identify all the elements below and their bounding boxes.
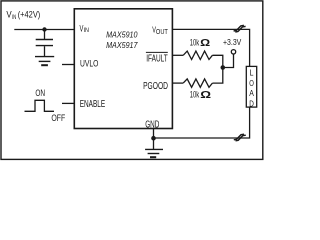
svg-text:+3.3V: +3.3V — [223, 38, 242, 47]
wire VOUT to load — [172, 29, 249, 66]
svg-text:10k: 10k — [190, 90, 200, 100]
wire load bottom to ground run — [154, 107, 250, 138]
capacitor C1 — [36, 40, 53, 46]
svg-text:V: V — [6, 10, 11, 20]
+3.3V supply terminal — [223, 38, 242, 54]
wire capacitor to ground — [44, 46, 46, 56]
wire UVLO stub — [62, 64, 74, 66]
svg-text:MAX5917: MAX5917 — [106, 40, 138, 50]
svg-text:L: L — [250, 67, 254, 77]
svg-text:Ω: Ω — [200, 89, 211, 101]
svg-text:UVLO: UVLO — [80, 58, 98, 69]
wire VIN node down to capacitor — [44, 30, 46, 40]
svg-text:GND: GND — [145, 120, 159, 131]
node VIN (+42V) label — [6, 10, 40, 21]
junction dot at VIN node — [42, 27, 46, 31]
load box — [246, 66, 256, 108]
resistor R2 10k (PGOOD pullup) — [183, 79, 212, 101]
junction dot GND node — [151, 136, 156, 141]
svg-text:10k: 10k — [190, 37, 200, 47]
wire VIN input to U1 — [14, 29, 74, 31]
svg-text:Ω: Ω — [200, 37, 210, 49]
wire R2 to pullup node — [212, 68, 222, 84]
ground (input capacitor) — [35, 57, 54, 66]
wire ENABLE stub — [62, 102, 74, 104]
resistor R1 10k (IFAULT pullup) — [183, 37, 212, 60]
svg-text:OUT: OUT — [156, 29, 169, 36]
wire IFAULT to R1 — [172, 54, 183, 56]
ON/OFF pulse waveform source — [25, 88, 66, 124]
svg-text:O: O — [249, 78, 254, 88]
wire-break mark on ground run — [234, 134, 246, 141]
junction dot pullup node — [221, 65, 226, 70]
svg-text:IFAULT: IFAULT — [146, 53, 168, 64]
wire R1 to pullup node — [212, 55, 222, 67]
svg-text:OFF: OFF — [51, 113, 65, 124]
svg-text:PGOOD: PGOOD — [143, 81, 168, 92]
wire GND pin down — [153, 129, 155, 150]
svg-text:(+42V): (+42V) — [18, 10, 41, 20]
op-amp U1 MAX5910/MAX5917 box — [74, 9, 172, 131]
wire PGOOD to R2 — [172, 82, 183, 84]
svg-text:ENABLE: ENABLE — [80, 99, 106, 110]
svg-text:IN: IN — [84, 27, 90, 34]
svg-text:ON: ON — [35, 88, 45, 98]
svg-text:IN: IN — [12, 14, 17, 21]
wire-break mark on VOUT run — [234, 25, 246, 32]
wire pullup node to +3.3V terminal — [223, 54, 234, 68]
svg-text:MAX5910: MAX5910 — [106, 30, 138, 40]
ground (GND pin) — [145, 149, 163, 157]
svg-text:A: A — [249, 88, 254, 98]
